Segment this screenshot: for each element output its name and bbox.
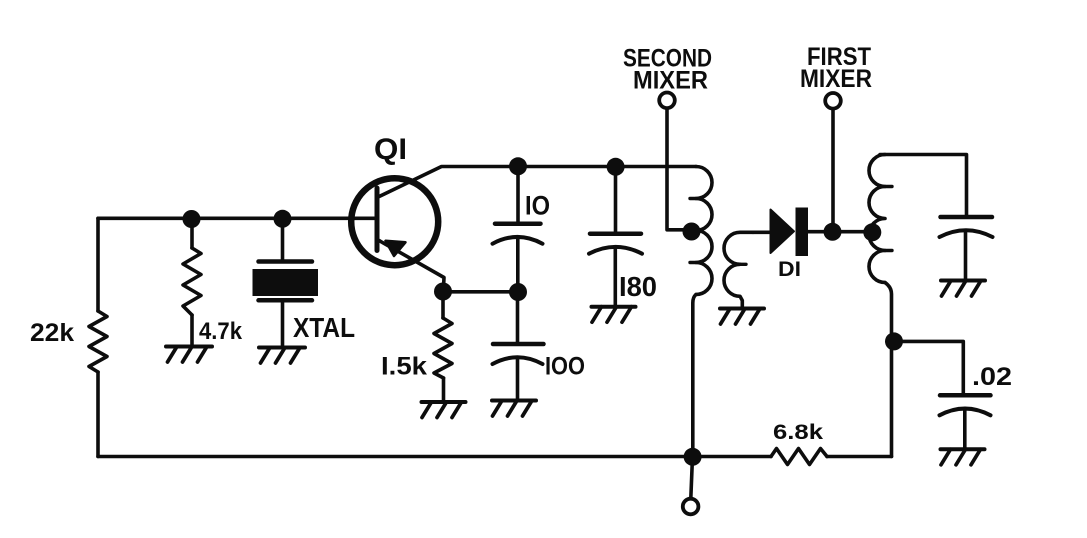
transistor Q1 circle [351,178,438,265]
crystal XTAL [281,219,285,262]
node junction T2 tap [863,223,881,241]
node junction T2 bottom / .02 [885,332,903,350]
ground of .02 [941,449,985,465]
svg-text:IO: IO [525,191,550,221]
svg-text:22k: 22k [30,319,74,347]
ground of 1.5k [422,402,466,418]
terminal SECOND MIXER [659,93,675,109]
node junction bottom rail [684,448,702,466]
svg-text:I.5k: I.5k [381,353,427,381]
svg-text:DI: DI [778,258,801,281]
wire T2 top branch [880,155,967,218]
wire left vertical [96,218,100,311]
ground of XTAL [259,348,305,364]
svg-text:XTAL: XTAL [293,312,355,343]
transformer T1 secondary coil [724,232,753,308]
node junction T1 tap [683,223,701,241]
svg-text:IOO: IOO [545,353,585,381]
wire T1 primary bottom [693,295,696,457]
wire bottom rail [98,455,771,459]
terminal bottom output [683,499,699,515]
svg-text:MIXER: MIXER [633,67,708,95]
resistor R 4.7k [190,219,194,248]
resistor R 22k [89,311,107,372]
capacitor C 100 [516,292,520,344]
wire emitter horizontal [443,290,518,294]
svg-text:QI: QI [374,133,407,166]
diode D1 [753,231,771,235]
node junction cap180 top [607,158,625,176]
svg-text:.02: .02 [972,363,1012,391]
capacitor C 180 [614,167,618,234]
svg-text:I80: I80 [619,271,657,302]
ground of 100 [492,401,536,417]
transformer T2 coil [869,155,885,283]
svg-text:4.7k: 4.7k [199,318,243,345]
ground of 180 [592,307,636,323]
wire SECOND MIXER lead [667,109,688,230]
wire top rail (base wire) [98,217,375,221]
resistor R 6.8k [771,449,827,465]
node junction emitter [434,283,452,301]
transistor Q1 base bar [375,188,380,251]
wire emitter diagonal [379,241,444,292]
node junction cap10 top [509,157,527,175]
svg-text:6.8k: 6.8k [773,420,823,444]
terminal FIRST MIXER [825,93,841,109]
svg-text:MIXER: MIXER [800,65,872,93]
ground of right-top capacitor [941,281,985,297]
node junction top XTAL [274,210,292,228]
node junction top 4.7k [183,210,201,228]
wire to bottom terminal [691,457,693,499]
capacitor C 10 [516,167,520,224]
transistor Q1 emitter arrow [386,241,406,256]
wire collector rail [377,167,696,198]
resistor R 1.5k [441,292,445,319]
ground of 4.7k [166,347,212,363]
node junction diode / first mixer [824,223,842,241]
transformer T1 primary coil [696,167,712,295]
capacitor C .02 [940,393,991,398]
wire .02 branch [894,341,963,395]
node junction cap10/cap100 [509,283,527,301]
capacitor C right-top [941,215,993,220]
ground of T1 secondary [720,309,764,325]
wire FIRST MIXER lead [831,109,835,232]
wire T2 bottom vertical [885,283,892,457]
